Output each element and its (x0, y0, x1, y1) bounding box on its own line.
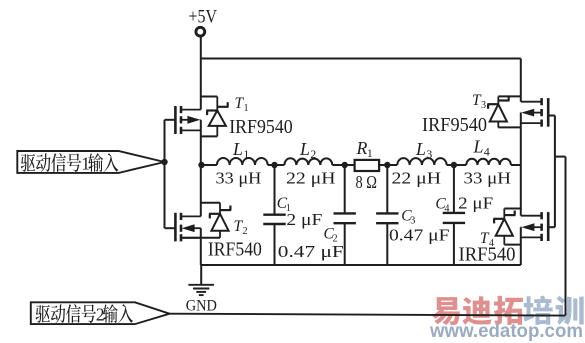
svg-text:22 μH: 22 μH (392, 168, 442, 187)
svg-text:IRF9540: IRF9540 (422, 115, 487, 136)
svg-text:2 μF: 2 μF (458, 194, 493, 213)
svg-text:3: 3 (426, 148, 432, 161)
svg-text:1: 1 (81, 153, 90, 173)
svg-text:8 Ω: 8 Ω (356, 172, 378, 192)
svg-text:L: L (473, 137, 484, 157)
svg-text:33 μH: 33 μH (216, 168, 262, 187)
svg-text:22 μH: 22 μH (286, 168, 336, 187)
svg-text:+5V: +5V (189, 6, 218, 27)
svg-text:IRF540: IRF540 (208, 239, 262, 260)
svg-text:0.47 μF: 0.47 μF (278, 242, 344, 261)
svg-text:www.edatop.com: www.edatop.com (429, 320, 583, 342)
svg-text:1: 1 (367, 147, 373, 160)
svg-text:L: L (299, 139, 310, 159)
svg-text:2: 2 (96, 304, 105, 324)
svg-text:4: 4 (484, 146, 490, 159)
svg-text:1: 1 (243, 148, 249, 161)
svg-text:2: 2 (242, 226, 247, 237)
svg-text:GND: GND (186, 297, 217, 314)
svg-text:R: R (356, 138, 368, 158)
svg-text:2: 2 (310, 148, 316, 161)
svg-text:L: L (415, 139, 426, 159)
svg-text:L: L (232, 139, 243, 159)
svg-text:33 μH: 33 μH (464, 168, 512, 187)
svg-text:IRF540: IRF540 (459, 244, 516, 265)
svg-text:2 μF: 2 μF (286, 210, 322, 229)
svg-text:1: 1 (243, 103, 248, 114)
svg-text:0.47 μF: 0.47 μF (389, 226, 450, 245)
svg-text:4: 4 (444, 203, 449, 214)
svg-text:3: 3 (481, 100, 486, 111)
svg-text:IRF9540: IRF9540 (229, 117, 293, 138)
